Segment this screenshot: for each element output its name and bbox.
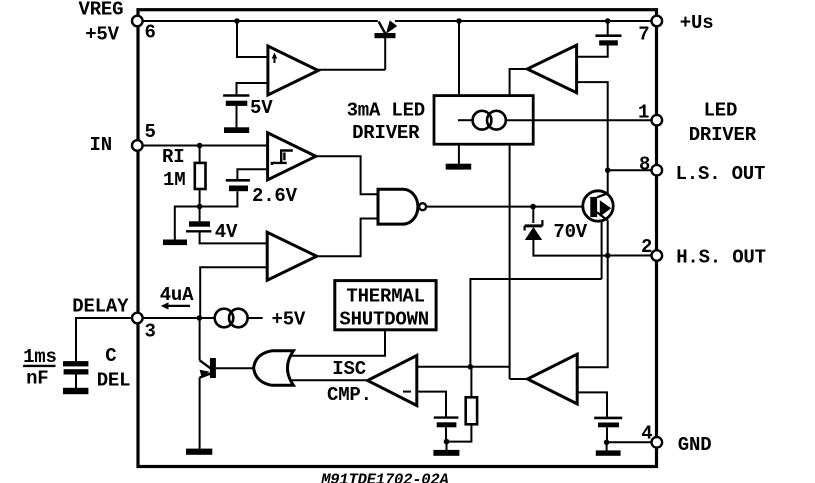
reference 5V thick plate <box>226 101 248 106</box>
wire pin3 to 4uA source <box>142 317 215 319</box>
svg-text:4V: 4V <box>215 221 238 243</box>
pin 3 circle <box>132 313 143 324</box>
svg-text:VREG: VREG <box>79 0 124 21</box>
wire pin8 <box>608 169 652 171</box>
svg-text:7: 7 <box>638 23 649 45</box>
capacitor C DEL plate bottom <box>64 369 89 374</box>
wire ISC battery to ground node <box>445 427 447 441</box>
wire B2 lower input to battery <box>577 392 607 417</box>
wire U2 minus input to 2.6V ref <box>237 169 267 179</box>
wire zener stem from node <box>532 207 534 223</box>
wire B1 battery stem from rail <box>607 21 609 34</box>
wire pin2 node down to B2 upper input <box>577 256 608 368</box>
pin 2 circle <box>652 250 663 261</box>
wire VREG rail pin6 to pass transistor <box>142 20 378 22</box>
or-gate G1 <box>254 351 294 386</box>
current source box <box>434 96 533 145</box>
pin 8 circle <box>652 165 663 176</box>
transistor Q3 pass PNP base bar <box>375 33 396 38</box>
wire U2 output to NAND upper input <box>316 156 378 194</box>
wire U1 plus input from VREG tap <box>237 21 268 57</box>
pin 5 circle <box>132 140 143 151</box>
wire ISC minus input to battery <box>417 392 446 417</box>
wire pin3 node down to Q2 <box>199 318 201 360</box>
buffer B2 <box>528 354 578 404</box>
transistor Q1 circle <box>583 191 613 221</box>
svg-text:+Us: +Us <box>680 12 714 34</box>
U1 plus input arrow marker <box>274 56 276 63</box>
node ISC ground <box>444 439 450 445</box>
svg-text:3: 3 <box>145 321 156 343</box>
resistor R2 <box>466 397 477 424</box>
node pin5 RI tap <box>197 143 203 149</box>
svg-text:THERMAL: THERMAL <box>346 286 424 308</box>
node ISC plus R2 tap <box>468 364 474 370</box>
node pin2 <box>605 253 611 259</box>
svg-text:DEL: DEL <box>97 369 131 391</box>
reference 4V thick plate <box>189 221 210 226</box>
wire rail down to current source box <box>458 21 460 96</box>
svg-text:4uA: 4uA <box>160 284 194 306</box>
svg-text:1: 1 <box>638 102 649 124</box>
wire 4V ref to U3 plus input <box>200 231 268 243</box>
wire ISC output to OR gate lower input <box>292 379 368 381</box>
reference 4V thin plate <box>186 230 211 232</box>
battery B2 thick plate <box>598 423 619 428</box>
reference 5V thin plate <box>223 94 249 97</box>
svg-text:DELAY: DELAY <box>72 296 129 318</box>
current source CS1 circle right <box>487 111 506 130</box>
svg-text:+5V: +5V <box>85 24 119 46</box>
svg-text:70V: 70V <box>553 221 587 243</box>
wire B2 output <box>510 378 528 380</box>
wire stub inside current source box <box>458 119 473 121</box>
wire current source box bottom to ground <box>458 144 460 164</box>
wire NAND output to Q1 base <box>426 206 590 208</box>
svg-text:5V: 5V <box>250 97 273 119</box>
svg-text:+5V: +5V <box>272 309 306 331</box>
svg-text:GND: GND <box>678 434 712 456</box>
zener D2 anode triangle <box>525 227 542 240</box>
ground under ISC battery <box>433 450 459 456</box>
wire pin4 node to ground <box>606 442 608 450</box>
reference 2.6V thick plate <box>229 186 248 192</box>
pin 1 circle <box>652 115 663 126</box>
pin 7 circle <box>652 16 663 27</box>
op-amp U1 <box>268 46 318 95</box>
zener D2 cathode bar <box>525 224 543 227</box>
wire OR output to Q2 base <box>216 367 255 369</box>
svg-text:M91TDE1702-02A: M91TDE1702-02A <box>320 471 448 483</box>
svg-text:6: 6 <box>145 21 156 43</box>
svg-text:4: 4 <box>641 422 652 444</box>
IC outline box <box>138 10 657 467</box>
wire U1 output <box>318 69 385 71</box>
ground under C DEL <box>63 388 88 394</box>
wire C DEL to ground <box>75 375 77 388</box>
transistor Q1 emitter arrowhead <box>600 200 611 216</box>
transistor Q2 collector slant <box>200 360 211 368</box>
wire zener anode to pin2 node <box>533 239 607 256</box>
wire B2 battery down to pin4 node <box>606 427 608 442</box>
wire pin3 out to delay capacitor <box>76 318 133 361</box>
wire 5V ref to ground <box>236 106 238 128</box>
wire node to left ground <box>175 207 200 240</box>
wire +Us rail to pin7 <box>395 20 652 22</box>
node +Us tap current source <box>456 18 462 24</box>
wire Q1 emitter down to pin2 node <box>607 220 609 255</box>
wire B1 battery to B1 upper input <box>577 46 608 57</box>
node +Us tap B1 battery <box>605 18 611 24</box>
buffer B1 <box>527 45 576 92</box>
ground under Q2 <box>186 449 212 455</box>
svg-text:nF: nF <box>26 368 48 390</box>
svg-text:LED: LED <box>704 100 738 122</box>
current source CS1 circle left <box>473 111 492 130</box>
wire U1 minus input to 5V ref <box>237 83 268 94</box>
svg-text:SHUTDOWN: SHUTDOWN <box>339 309 429 331</box>
wire Q3 base down to U1 output <box>384 38 386 70</box>
transistor Q2 emitter arrowhead <box>200 370 210 378</box>
NAND gate U4 bubble <box>419 203 426 210</box>
ground left of 4V ref <box>163 240 187 246</box>
resistor RI 1M <box>195 163 206 189</box>
svg-text:IN: IN <box>90 134 112 156</box>
comparator U2 schmitt <box>268 133 316 180</box>
capacitor C DEL plate top <box>63 361 88 366</box>
U2 hysteresis symbol <box>272 151 293 166</box>
op-amp U3 <box>267 232 317 280</box>
transistor Q3 emitter arrow <box>386 20 397 34</box>
wire U3 minus input from pin3 node <box>200 267 267 318</box>
pin 6 circle <box>132 16 143 27</box>
node pin3 <box>197 315 203 321</box>
wire R2 top <box>470 367 472 398</box>
svg-text:L.S. OUT: L.S. OUT <box>676 163 766 185</box>
svg-text:2: 2 <box>641 236 652 258</box>
wire B1 lower input down to pin8 node <box>577 82 608 170</box>
wire current source box bottom long vertical to B2 output <box>509 144 511 379</box>
svg-text:RI: RI <box>162 146 184 168</box>
wire pin2 <box>608 255 652 257</box>
current source CS2 4uA circle right <box>229 309 248 328</box>
pin 4 circle <box>652 437 663 448</box>
transistor Q1 base bar <box>590 197 597 217</box>
wire Q1 collector up to pin8 node <box>607 170 609 193</box>
wire 2.6V ref down to node <box>200 191 238 206</box>
transistor Q1 collector slant <box>597 193 608 197</box>
wire RI top <box>199 146 201 163</box>
battery B2 thin plate <box>594 417 622 420</box>
wire thermal shutdown to OR gate upper input <box>290 330 385 356</box>
svg-text:H.S. OUT: H.S. OUT <box>676 247 766 269</box>
svg-text:2.6V: 2.6V <box>252 185 298 207</box>
wire B1 output to current source box <box>510 69 528 96</box>
wire node down to 4V ref <box>199 207 201 222</box>
svg-text:CMP.: CMP. <box>327 384 372 406</box>
battery B1 thick plate <box>599 40 618 45</box>
svg-text:DRIVER: DRIVER <box>352 122 420 144</box>
wire Q1 sense line down to loop <box>601 221 603 279</box>
arrow 4uA direction <box>165 305 190 307</box>
wire ground node down <box>446 442 448 450</box>
svg-text:5: 5 <box>145 121 156 143</box>
ground under B2 battery <box>596 450 621 455</box>
battery ISC thick plate <box>437 422 457 427</box>
wire pin4 <box>607 441 652 443</box>
svg-text:1M: 1M <box>163 169 185 191</box>
node RI bottom <box>197 204 203 210</box>
U5 minus input dash <box>403 391 411 393</box>
transistor Q2 emitter slant <box>200 374 211 378</box>
U1 minus input dash <box>258 82 268 84</box>
wire ISC plus input <box>417 366 510 368</box>
ground under 5V ref <box>224 127 249 133</box>
NAND gate U4 body <box>378 189 418 224</box>
wire loop to ISC input <box>470 279 601 367</box>
wire R2 bottom to ground node <box>447 424 472 441</box>
wire Q2 emitter down to ground <box>199 378 201 449</box>
battery ISC thin plate <box>434 416 459 418</box>
comparator U5 ISC <box>368 356 417 406</box>
transistor Q1 emitter slant <box>597 212 608 220</box>
node VREG tap <box>234 18 240 24</box>
node pin4 <box>604 440 610 446</box>
svg-text:1ms: 1ms <box>23 346 57 368</box>
zener D2 cathode ticks <box>525 220 543 231</box>
wire pin5 IN to U2 <box>142 145 268 147</box>
svg-text:ISC: ISC <box>332 358 366 380</box>
current source CS2 4uA circle left <box>215 309 234 328</box>
svg-text:C: C <box>105 345 116 367</box>
reference 2.6V thin plate <box>226 179 250 182</box>
wire RI bottom <box>199 189 201 207</box>
wire CS1 to pin1 <box>506 119 652 121</box>
battery B1 thin plate <box>595 34 621 37</box>
fraction bar 1ms/nF <box>23 365 55 367</box>
svg-text:3mA LED: 3mA LED <box>347 99 425 121</box>
transistor Q3 collector slant <box>379 22 386 34</box>
svg-text:DRIVER: DRIVER <box>689 124 757 146</box>
transistor Q2 base bar <box>210 358 216 378</box>
svg-text:8: 8 <box>639 154 650 176</box>
ground under current source box <box>446 164 472 170</box>
node pin8 <box>605 167 611 173</box>
thermal shutdown box <box>335 281 436 330</box>
wire U3 output to NAND lower input <box>317 219 378 257</box>
wire CS2 to +5V label <box>248 317 263 319</box>
node NAND output zener tap <box>530 204 536 210</box>
